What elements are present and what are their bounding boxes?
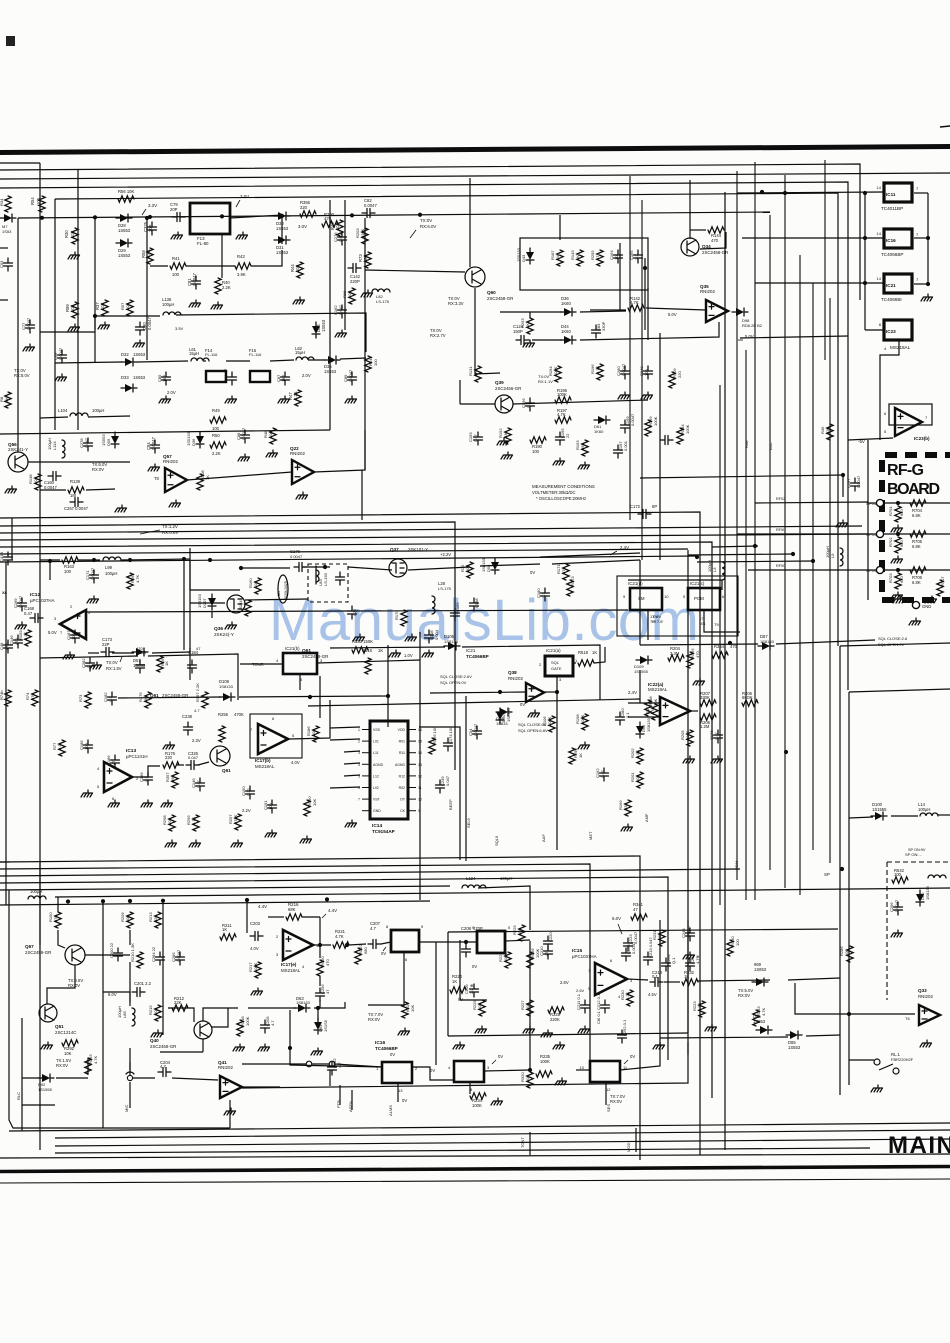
svg-text:1000: 1000 xyxy=(71,630,76,640)
resistor R309 xyxy=(669,372,675,388)
svg-text:Q60: Q60 xyxy=(487,290,496,295)
svg-text:GND: GND xyxy=(373,809,381,813)
wire ic12 line2 xyxy=(40,559,60,561)
wire RFG1 row xyxy=(868,533,876,535)
resistor R141 xyxy=(365,356,371,372)
svg-text:A0C: A0C xyxy=(768,442,773,450)
inductor L21b xyxy=(28,896,46,899)
svg-text:R12: R12 xyxy=(399,774,405,778)
wire low bus 2 xyxy=(0,864,590,1060)
wire L104 line xyxy=(40,417,68,418)
resistor R187 xyxy=(557,250,563,266)
wire sql out xyxy=(573,662,576,664)
svg-text:R354: R354 xyxy=(714,644,725,649)
svg-text:10K: 10K xyxy=(167,818,172,825)
op-amp IC17(b) xyxy=(258,724,288,754)
svg-text:0V: 0V xyxy=(430,1068,435,1073)
wire cluster v2 xyxy=(221,234,223,278)
diode D35 xyxy=(328,356,336,364)
svg-text:470K: 470K xyxy=(233,814,238,824)
svg-text:H3E: H3E xyxy=(744,440,749,448)
transistor Q61 xyxy=(210,746,230,766)
resistor R308 xyxy=(197,474,203,490)
svg-text:ALMS: ALMS xyxy=(388,1105,393,1116)
resistor R223 xyxy=(699,1001,705,1017)
op-amp Q57 RNI202 xyxy=(165,468,187,492)
IC16 switch box b xyxy=(382,1062,412,1083)
resistor R190 xyxy=(530,437,546,443)
capacitor C211 xyxy=(581,1000,590,1013)
diode D32 xyxy=(125,358,133,366)
svg-text:L11: L11 xyxy=(373,751,379,755)
svg-text:9026L3325: 9026L3325 xyxy=(284,581,288,600)
svg-text:IC17(e): IC17(e) xyxy=(281,962,297,967)
capacitor C84 xyxy=(151,440,160,453)
svg-text:BEEP: BEEP xyxy=(448,799,453,810)
svg-text:1K: 1K xyxy=(473,371,478,376)
wire l85 top xyxy=(129,992,131,1006)
svg-text:0V: 0V xyxy=(402,1098,407,1103)
svg-text:4.7K: 4.7K xyxy=(595,365,600,374)
svg-text:2.0V: 2.0V xyxy=(302,373,311,378)
svg-text:R164: R164 xyxy=(238,600,243,610)
ground RL1 xyxy=(871,1085,883,1092)
svg-text:4.7K: 4.7K xyxy=(557,412,566,417)
wire rfg2 long xyxy=(755,502,868,503)
wire F13 output xyxy=(230,215,282,218)
wire bottom thick frame line xyxy=(0,1167,950,1172)
SP dashed box xyxy=(887,862,950,1000)
svg-text:47: 47 xyxy=(196,646,201,651)
svg-text:2.4V: 2.4V xyxy=(620,545,629,550)
svg-text:SEL9: SEL9 xyxy=(466,817,471,828)
capacitor C197 xyxy=(614,445,623,458)
svg-text:D36: D36 xyxy=(191,438,196,446)
ground Q22 xyxy=(296,492,308,499)
resistor R225b xyxy=(479,1000,485,1016)
svg-text:0.1: 0.1 xyxy=(625,712,630,718)
svg-text:1K60: 1K60 xyxy=(594,429,604,434)
resistor R209 xyxy=(127,912,133,928)
inductor L28 xyxy=(432,596,435,614)
svg-text:0.47: 0.47 xyxy=(24,611,33,616)
svg-text:14: 14 xyxy=(877,185,882,190)
node junction dots on main line xyxy=(40,216,44,220)
svg-text:47: 47 xyxy=(595,255,600,260)
svg-text:1S8133: 1S8133 xyxy=(925,885,930,900)
resistor R99 xyxy=(72,302,78,318)
svg-text:470: 470 xyxy=(561,567,566,574)
svg-text:15P: 15P xyxy=(162,375,167,382)
wire ic16 pins down xyxy=(397,1083,399,1102)
resistor R170 xyxy=(401,610,407,626)
svg-text:100µH: 100µH xyxy=(918,807,930,812)
capacitor C159 xyxy=(451,608,460,621)
capacitor C276 xyxy=(338,232,347,245)
wire ic14 right bus xyxy=(419,727,460,860)
capacitor C186 xyxy=(111,755,120,768)
svg-text:C41B: C41B xyxy=(0,552,4,562)
wire mid bus 1 xyxy=(0,512,700,1155)
capacitor in box xyxy=(336,572,345,585)
wire top bus 2 xyxy=(0,164,860,300)
wire ic15 bottom box xyxy=(448,1033,688,1036)
svg-text:2SC2458-GR: 2SC2458-GR xyxy=(25,950,51,955)
resistor R192 xyxy=(505,428,511,444)
svg-text:1S853: 1S853 xyxy=(753,1019,766,1024)
capacitor C238 xyxy=(184,722,193,735)
wire -5V xyxy=(848,438,893,440)
svg-text:1K: 1K xyxy=(452,979,457,984)
capacitor C184 xyxy=(188,660,197,673)
capacitor C82 xyxy=(362,209,375,218)
ground C171 xyxy=(87,596,99,603)
svg-text:0V: 0V xyxy=(472,964,477,969)
svg-text:150P: 150P xyxy=(513,329,523,334)
svg-text:RNI202: RNI202 xyxy=(700,289,715,294)
svg-text:0.0047: 0.0047 xyxy=(44,485,57,490)
svg-text:10K: 10K xyxy=(410,1005,415,1012)
wire x282 vert xyxy=(281,218,283,244)
svg-text:0V: 0V xyxy=(390,1052,395,1057)
svg-text:100µH: 100µH xyxy=(825,546,830,558)
capacitor C190 xyxy=(246,786,255,799)
ground R99 xyxy=(68,324,80,331)
svg-text:100: 100 xyxy=(84,743,89,750)
svg-text:Q67: Q67 xyxy=(25,944,34,949)
wire vert x660q xyxy=(659,920,661,1040)
capacitor C169 xyxy=(18,598,27,611)
ground C80 xyxy=(133,340,145,347)
svg-text:SP ON:9V: SP ON:9V xyxy=(908,848,926,852)
svg-text:1K: 1K xyxy=(164,661,169,666)
capacitor C240 xyxy=(644,366,653,379)
box IC21dc outline xyxy=(617,576,738,636)
wire low bus 5 xyxy=(0,886,450,890)
resistor R256 xyxy=(219,726,225,742)
resistor R150 xyxy=(55,912,61,928)
svg-text:2.2K: 2.2K xyxy=(222,285,231,290)
ground below R30 xyxy=(68,252,80,259)
wire mic chain xyxy=(129,1048,131,1070)
svg-text:RF-G: RF-G xyxy=(887,462,924,479)
wire ic16a pin6 xyxy=(368,952,404,1005)
resistor R253 xyxy=(527,318,533,334)
svg-text:100: 100 xyxy=(268,803,273,810)
svg-text:3.9K: 3.9K xyxy=(237,272,246,277)
svg-text:470: 470 xyxy=(695,651,700,658)
resistor R138 xyxy=(35,474,41,490)
ground Q57 xyxy=(169,500,181,507)
svg-text:TC9154AP: TC9154AP xyxy=(372,829,395,834)
svg-text:IC21(a): IC21(a) xyxy=(546,648,561,653)
svg-text:C86 6P: C86 6P xyxy=(223,368,228,382)
diode D44 xyxy=(564,336,572,344)
diode D65 xyxy=(760,1026,768,1034)
resistor R80 xyxy=(5,392,11,408)
ground C84 xyxy=(148,464,160,471)
op-amp Q35 RNI202 xyxy=(706,300,728,322)
svg-text:1S1S5: 1S1S5 xyxy=(323,1019,328,1032)
svg-text:47: 47 xyxy=(111,760,116,765)
svg-text:MS218AL: MS218AL xyxy=(255,764,275,769)
diode D92 xyxy=(42,1074,50,1082)
wire ic17e wires xyxy=(310,944,331,946)
ground ic15d xyxy=(705,1024,717,1031)
svg-text:C252 0.1: C252 0.1 xyxy=(622,1019,627,1036)
svg-text:RLC: RLC xyxy=(16,1092,21,1100)
svg-text:10: 10 xyxy=(418,798,422,802)
capacitor C254 xyxy=(686,958,695,971)
ground C176 xyxy=(711,756,723,763)
svg-text:1K60: 1K60 xyxy=(561,329,571,334)
wire vert left edge xyxy=(5,562,7,905)
svg-text:0.1: 0.1 xyxy=(86,662,91,668)
ground R192 xyxy=(501,452,513,459)
svg-text:680: 680 xyxy=(899,576,904,583)
ground R169 xyxy=(621,824,633,831)
svg-text:4.7⊕: 4.7⊕ xyxy=(695,955,700,964)
wire top bus 1 xyxy=(0,162,40,164)
inductor L85 xyxy=(132,1008,135,1026)
resistor R221 xyxy=(333,942,349,948)
svg-text:RNI202: RNI202 xyxy=(508,676,523,681)
wire d44 row xyxy=(532,339,562,341)
ground F13 left xyxy=(171,232,183,239)
wire bottom-left box frame xyxy=(9,890,230,1128)
ground Q41 xyxy=(224,1108,236,1115)
wire ic15 feed xyxy=(459,940,461,1000)
ground C240 xyxy=(641,392,653,399)
wire ic17b out xyxy=(289,700,330,739)
wire top bus 4 xyxy=(0,182,848,690)
svg-text:D33: D33 xyxy=(121,375,129,380)
capacitor C87 xyxy=(281,372,290,385)
capacitor C213 xyxy=(644,952,653,965)
svg-text:15P: 15P xyxy=(281,375,286,382)
resistor R290 xyxy=(569,748,575,764)
svg-text:RF00: RF00 xyxy=(776,564,785,568)
wire 2.4V line xyxy=(308,699,640,706)
diode D57 xyxy=(136,648,144,656)
svg-text:0V: 0V xyxy=(530,570,535,575)
svg-text:2.6V: 2.6V xyxy=(576,988,585,993)
resistor R231 xyxy=(659,930,665,946)
resistor R163 xyxy=(62,557,78,563)
svg-text:MAIN UNI: MAIN UNI xyxy=(888,1132,950,1159)
transistor Q34 xyxy=(681,238,699,256)
svg-text:2.4V: 2.4V xyxy=(628,690,637,695)
svg-text:470K: 470K xyxy=(234,712,244,717)
svg-text:SQL CLOSE:2.6V: SQL CLOSE:2.6V xyxy=(440,674,472,679)
svg-text:Q40: Q40 xyxy=(150,1038,159,1043)
capacitor C210 xyxy=(544,946,553,959)
resistor R49 xyxy=(210,417,226,423)
wire q56row xyxy=(40,489,66,491)
svg-text:T9: T9 xyxy=(714,622,719,627)
capacitor C142 xyxy=(348,264,361,273)
ground C238 xyxy=(163,742,175,749)
ground C297 xyxy=(836,520,848,527)
svg-text:2.2K: 2.2K xyxy=(293,391,298,400)
resistor R230 xyxy=(627,990,633,1006)
ground R228g xyxy=(541,1030,553,1037)
svg-text:RD6.2E B2: RD6.2E B2 xyxy=(742,323,763,328)
wire vertical bus bundle xyxy=(629,176,631,520)
svg-text:1K: 1K xyxy=(592,650,597,655)
wire ic21c down xyxy=(647,610,649,640)
resistor R131 xyxy=(475,366,481,382)
svg-text:RNI202: RNI202 xyxy=(918,994,933,999)
capacitor C77 xyxy=(26,320,35,333)
svg-text:RX:0V: RX:0V xyxy=(610,1099,622,1104)
svg-text:C257 0.0047: C257 0.0047 xyxy=(64,506,89,511)
wire bot bus 1 xyxy=(9,1123,950,1131)
svg-text:6.0V: 6.0V xyxy=(612,916,621,921)
diode D64 xyxy=(314,1022,322,1030)
svg-text:R516: R516 xyxy=(362,648,373,653)
op-amp IC15 xyxy=(595,963,627,995)
wire left vertical bus 2 xyxy=(77,170,79,430)
svg-text:4.7: 4.7 xyxy=(270,1020,275,1026)
wire mic vert xyxy=(129,1062,131,1075)
wire q36 gate xyxy=(190,602,225,604)
transistor Q51 xyxy=(39,1004,57,1022)
wire f13 bottom xyxy=(150,265,168,267)
svg-text:R156 100: R156 100 xyxy=(432,726,437,744)
capacitor C80 xyxy=(136,322,145,335)
resistor R235 xyxy=(536,1071,552,1077)
ground C195t xyxy=(553,458,565,465)
svg-text:0.047: 0.047 xyxy=(338,304,343,315)
resistor R236 xyxy=(727,940,733,956)
svg-text:100K: 100K xyxy=(245,1016,250,1026)
svg-text:6.8K: 6.8K xyxy=(912,513,921,518)
resistor R702 xyxy=(895,537,901,553)
svg-text:6.8K: 6.8K xyxy=(635,749,640,758)
ground R215 xyxy=(151,1030,163,1037)
ground C189 xyxy=(141,800,153,807)
svg-text:470: 470 xyxy=(4,643,9,650)
diode D63 xyxy=(298,1004,306,1012)
ground C296 xyxy=(891,930,903,937)
svg-text:L114: L114 xyxy=(52,441,57,450)
svg-text:14: 14 xyxy=(877,276,882,281)
svg-text:0.0047: 0.0047 xyxy=(894,899,899,912)
wire mid bus 3 xyxy=(0,526,862,533)
svg-text:SQL9: SQL9 xyxy=(494,835,499,846)
wire vert x55 xyxy=(54,199,56,430)
svg-text:RF0I: RF0I xyxy=(776,528,784,532)
svg-text:220K: 220K xyxy=(550,1017,560,1022)
resistor R43 xyxy=(235,263,251,269)
svg-text:MS218AL: MS218AL xyxy=(890,345,911,350)
inductor L83a xyxy=(316,570,319,582)
capacitor C325 xyxy=(148,222,157,235)
wire IC16 feed xyxy=(742,237,883,239)
svg-text:12: 12 xyxy=(606,1087,611,1092)
diode D109 xyxy=(640,656,648,664)
svg-text:C220: C220 xyxy=(548,932,553,942)
diode D100 xyxy=(875,812,883,820)
svg-text:IC21(c): IC21(c) xyxy=(690,581,705,586)
transistor Q56 xyxy=(8,452,28,472)
svg-text:RNI202: RNI202 xyxy=(163,459,178,464)
ground R37 xyxy=(98,322,110,329)
wire y430 line xyxy=(0,430,330,434)
wire rfg left vertical xyxy=(867,440,869,600)
capacitor C207 xyxy=(368,940,381,949)
resistor R50 xyxy=(210,442,226,448)
resistor R218 xyxy=(237,1020,243,1036)
svg-text:2SC2458-GR: 2SC2458-GR xyxy=(150,1044,176,1049)
svg-text:3.5V: 3.5V xyxy=(175,326,184,331)
IC21 box xyxy=(884,274,912,293)
capacitor C83bis xyxy=(58,350,67,363)
wire q35 in xyxy=(590,309,626,311)
svg-text:R702: R702 xyxy=(888,537,893,547)
ground C257 xyxy=(115,505,127,512)
svg-text:R56 10K: R56 10K xyxy=(118,189,135,194)
svg-text:SP ON:...: SP ON:... xyxy=(905,852,922,857)
svg-text:TC4066BP: TC4066BP xyxy=(466,654,489,659)
resistor R164 xyxy=(245,600,251,616)
svg-text:15µH: 15µH xyxy=(189,351,199,356)
inductor L14 xyxy=(920,813,938,816)
svg-text:R170: R170 xyxy=(394,610,399,620)
capacitor C214 xyxy=(650,978,663,987)
resistor R198 xyxy=(582,714,588,730)
svg-text:RX:3.3V: RX:3.3V xyxy=(448,301,464,306)
resistor R707 xyxy=(937,580,943,596)
svg-text:1S8153: 1S8153 xyxy=(197,593,202,608)
svg-text:IC16: IC16 xyxy=(886,238,896,243)
svg-text:0.1: 0.1 xyxy=(652,974,658,979)
svg-text:15: 15 xyxy=(418,740,422,744)
svg-text:4.7K: 4.7K xyxy=(335,934,344,939)
svg-text:C208: C208 xyxy=(461,926,472,931)
svg-text:R173: R173 xyxy=(570,576,575,586)
ground R205 xyxy=(683,756,695,763)
resistor R171b xyxy=(652,704,658,720)
resistor R355 xyxy=(687,652,693,668)
wire left edge stub B xyxy=(0,861,10,863)
capacitor C86 xyxy=(228,372,237,385)
svg-text:4.7K: 4.7K xyxy=(761,1007,766,1016)
ground R299 xyxy=(189,840,201,847)
svg-text:R707: R707 xyxy=(940,576,945,586)
resistor R74 xyxy=(32,690,38,706)
svg-text:IC21: IC21 xyxy=(886,283,896,288)
capacitor C165 xyxy=(634,250,643,263)
wire v x163 xyxy=(162,901,164,932)
svg-text:470: 470 xyxy=(14,638,19,645)
svg-text:RX:2.7V: RX:2.7V xyxy=(430,333,446,338)
svg-text:L01: L01 xyxy=(373,740,379,744)
svg-text:R34: R34 xyxy=(0,198,4,206)
wire mid bus 7 xyxy=(0,556,697,562)
svg-text:1S553: 1S553 xyxy=(321,319,326,332)
transistor Q36 FET xyxy=(227,595,245,613)
svg-text:D55: D55 xyxy=(106,438,111,446)
svg-text:1S1555: 1S1555 xyxy=(872,807,887,812)
capacitor C148 xyxy=(4,640,13,653)
resistor R48 xyxy=(270,428,276,444)
svg-text:IC21(b): IC21(b) xyxy=(285,646,300,651)
wire d92 row xyxy=(22,1077,40,1079)
resistor R40 xyxy=(215,278,221,294)
capacitor C204 xyxy=(158,1068,171,1077)
